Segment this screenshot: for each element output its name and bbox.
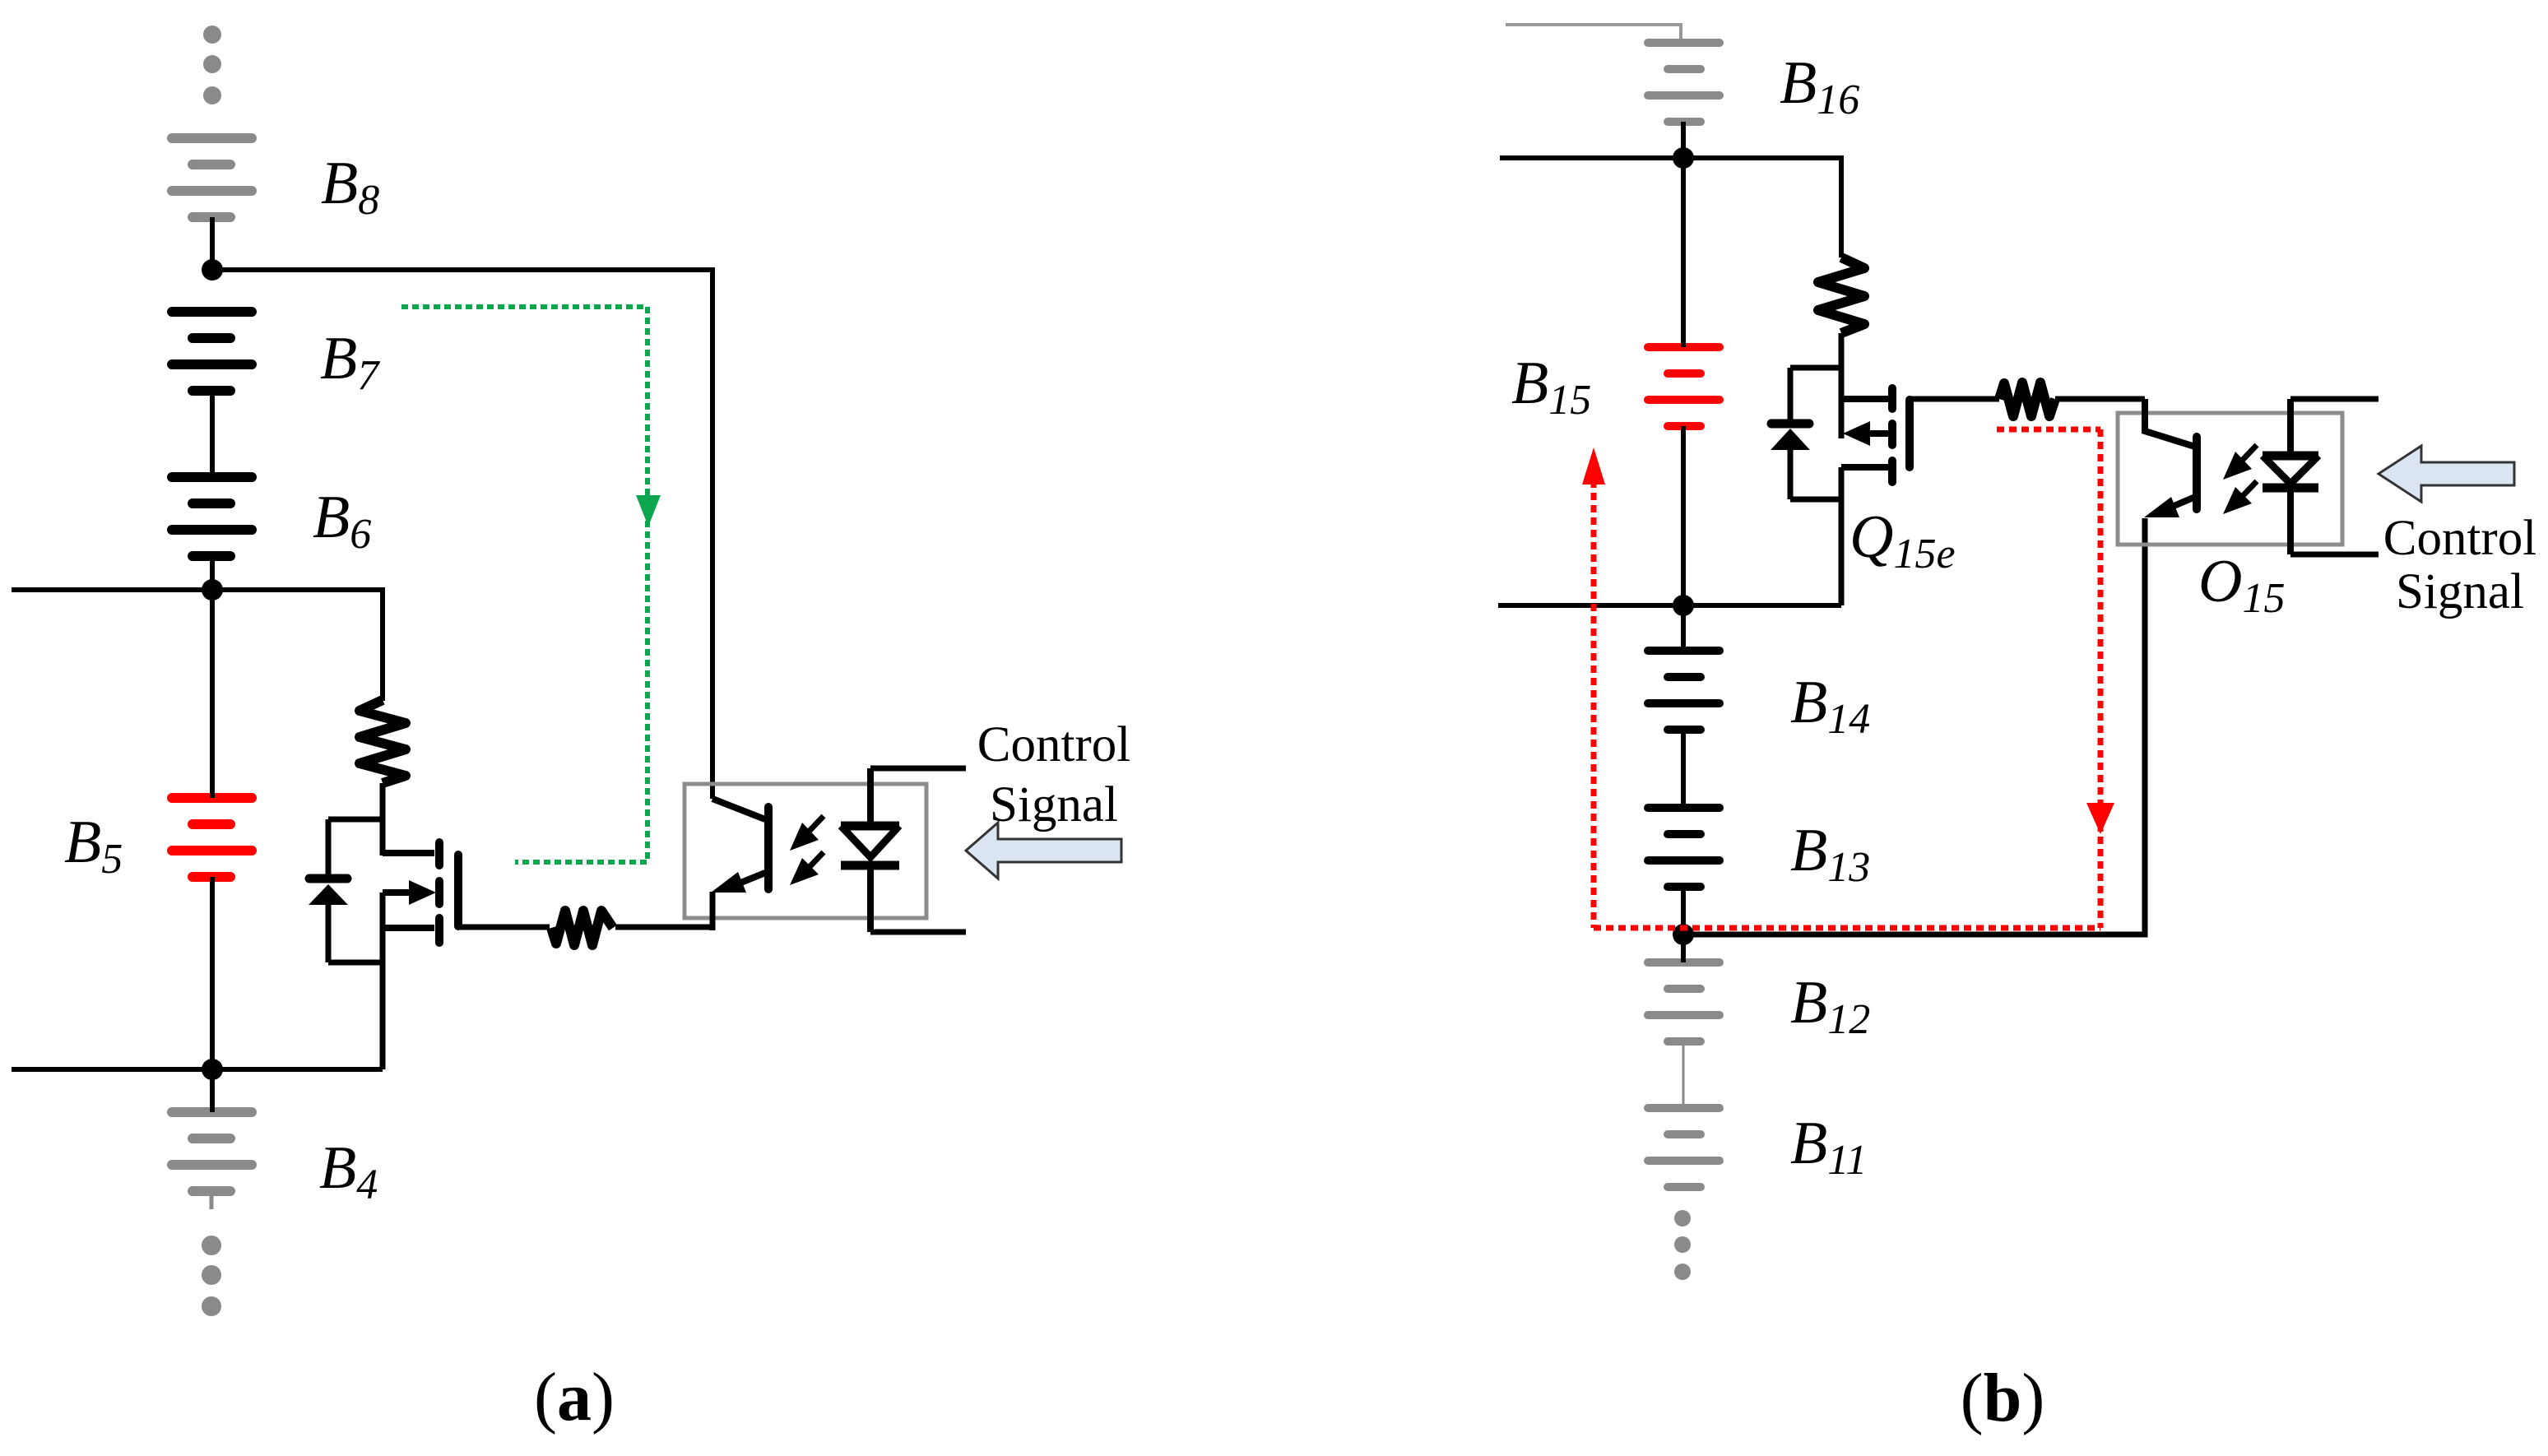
wire resistor to opto emitter (615, 925, 712, 930)
wire LED anode terminal (2290, 396, 2379, 402)
optocoupler O15 package (2118, 413, 2342, 545)
wire B13 to lower junction (1681, 887, 1686, 934)
svg-text:Signal: Signal (2396, 564, 2524, 619)
node: junction below B15 (1673, 595, 1694, 616)
transistor Q5e (MOSFET) (383, 842, 458, 1069)
wire lower rail to opto emitter (1683, 518, 2145, 934)
node: top junction of (b) (1673, 147, 1694, 169)
wire top rail to optocoupler collector (212, 270, 712, 799)
wire B5 to bottom rail (210, 877, 215, 1069)
equalizing current path left leg (red dashed, upward) (1591, 480, 1597, 928)
battery B5 (unbalanced cell, red) (172, 798, 252, 877)
wire resistor to MOSFET drain (380, 783, 386, 856)
battery B14 (1648, 651, 1720, 730)
resistor Rg15 (gate series) (1999, 383, 2055, 416)
node: mid junction of (a) (202, 579, 223, 600)
opto LED (2263, 399, 2318, 554)
svg-text:Signal: Signal (990, 777, 1118, 832)
wire B12 to B11 (gray) (1682, 1041, 1685, 1108)
opto light arrow 1 (2223, 445, 2257, 480)
wire top node to B15 (1681, 158, 1686, 347)
wire B4 bottom stub (gray) (210, 1191, 214, 1209)
wire body-diode loop bottom (1790, 497, 1841, 503)
wire resistor to opto collector (2055, 396, 2145, 402)
wire mid rail (12, 590, 383, 701)
transistor Q15e (MOSFET) (1841, 388, 1910, 605)
opto light arrow 1 (790, 816, 824, 851)
equalizing current path top stub (red dashed) (1997, 427, 2100, 433)
wire LED cathode terminal (2290, 552, 2379, 558)
svg-text:Control: Control (2383, 511, 2536, 566)
opto phototransistor (2144, 399, 2197, 517)
node: top junction of (a) (202, 259, 223, 281)
control signal block arrow (2379, 446, 2514, 502)
wire B16 to top node (1681, 122, 1686, 158)
continuation dots below B11 (1674, 1210, 1691, 1280)
opto light arrow 2 (790, 852, 824, 885)
wire B15 to bottom rail (1681, 426, 1686, 605)
opto LED (841, 768, 899, 932)
battery B12 (adjacent cell, gray) (1648, 962, 1720, 1041)
red down arrowhead (2086, 803, 2114, 834)
resistor R5 (gate pull-up, drain leg) (360, 700, 406, 783)
wire B4 top stub (210, 1069, 215, 1112)
resistor R15 (gate pull-up, drain leg) (1818, 257, 1864, 333)
wire B14 to B13 (1681, 730, 1686, 808)
opto phototransistor (711, 799, 768, 930)
wire junction to B12 (1681, 934, 1686, 962)
wire mid rail to B5 (210, 590, 215, 798)
battery B13 (1648, 808, 1720, 887)
battery B11 (adjacent cell, gray) (1648, 1108, 1720, 1187)
battery B6 (172, 477, 252, 556)
equalizing current path right leg (red dashed) (2098, 429, 2104, 928)
wire B8 to top node (210, 217, 215, 270)
battery B8 (adjacent cell, gray) (172, 138, 252, 217)
wire gate to resistor (457, 925, 550, 930)
wire LED anode terminal (870, 766, 966, 772)
continuation dots below B4 (202, 1236, 221, 1316)
opto light arrow 2 (2223, 481, 2257, 514)
node: bottom junction of (a) (202, 1059, 223, 1080)
wire junction to B14 (1681, 605, 1686, 651)
svg-text:(b): (b) (1961, 1360, 2045, 1436)
node: junction below B13 (1673, 924, 1694, 945)
wire B7 to B6 (210, 391, 215, 477)
svg-text:Control: Control (977, 717, 1130, 772)
wire resistor to MOSFET drain (1839, 333, 1845, 438)
svg-text:(a): (a) (534, 1359, 615, 1435)
wire gate to resistor (1910, 396, 1999, 402)
balancing current path (green dashed) (401, 307, 647, 862)
optocoupler O5 package (685, 784, 926, 918)
body diode D15 (1771, 368, 1810, 499)
resistor Rg5 (gate series) (551, 911, 613, 945)
wire bottom rail of cell 15 (1498, 603, 1841, 608)
wire body-diode loop top (328, 817, 383, 823)
wire top rail to resistor (1500, 158, 1841, 257)
wire bottom rail (12, 1067, 383, 1072)
body diode D5 (309, 819, 348, 962)
wire LED cathode terminal (870, 930, 966, 935)
wire body-diode loop bottom (328, 960, 383, 966)
wire B6 to mid rail (210, 556, 215, 590)
green path arrowhead (636, 495, 661, 526)
wire body-diode loop top (1790, 365, 1841, 371)
continuation dots above B8 (203, 26, 221, 104)
battery B15 (unbalanced cell, red) (1648, 347, 1720, 426)
battery B4 (adjacent cell, gray) (172, 1112, 252, 1191)
red up arrowhead (1582, 447, 1605, 485)
battery B16 (adjacent cell, gray) (1648, 43, 1720, 122)
equalizing current path bottom (red dashed) (1594, 925, 2100, 931)
control signal block arrow (966, 823, 1121, 879)
wire continuation lead above B16 (gray) (1506, 25, 1681, 41)
battery B7 (172, 312, 252, 391)
